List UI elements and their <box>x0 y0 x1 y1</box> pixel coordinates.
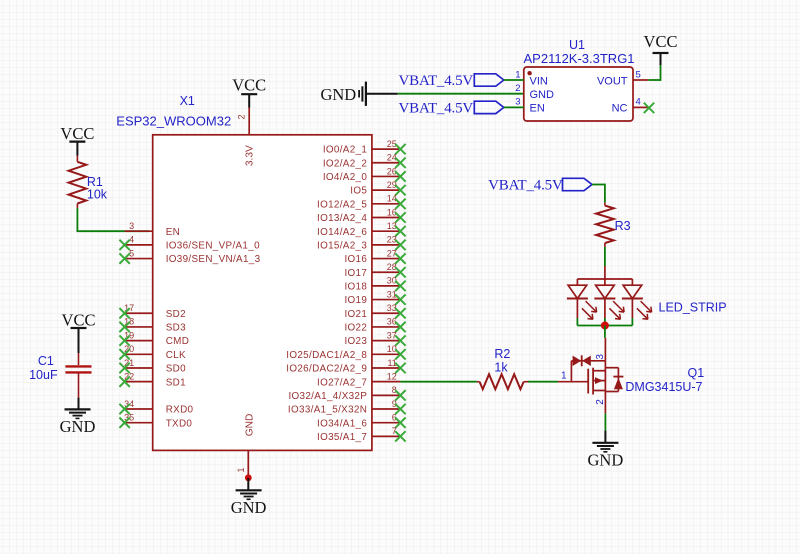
svg-text:DMG3415U-7: DMG3415U-7 <box>625 380 702 394</box>
svg-text:IO15/A2_3: IO15/A2_3 <box>317 240 367 251</box>
pin 25 IO0/A2_1 (right) <box>323 139 406 156</box>
pin 10 IO25/DAC1/A2_8 (right) <box>286 344 405 361</box>
pin 1 GND (bottom) <box>236 414 255 478</box>
svg-text:IO13/A2_4: IO13/A2_4 <box>317 213 367 224</box>
svg-text:R2: R2 <box>494 347 510 361</box>
LED strip top bus <box>577 278 632 280</box>
no-connect X pin 7 <box>395 431 405 441</box>
svg-text:EN: EN <box>530 103 545 115</box>
svg-text:IO0/A2_1: IO0/A2_1 <box>323 145 368 156</box>
resistor R1 <box>69 156 87 209</box>
no-connect X pin 17 <box>119 308 129 318</box>
no-connect X pin 10 <box>395 349 405 359</box>
net flag VBAT_4.5V (EN) <box>399 101 504 117</box>
no-connect X pin 37 <box>395 335 405 345</box>
no-connect X pin 11 <box>395 363 405 373</box>
junction dot (X1 GND) <box>245 474 252 481</box>
svg-text:VOUT: VOUT <box>597 75 628 87</box>
svg-text:VBAT_4.5V: VBAT_4.5V <box>399 101 474 117</box>
no-connect X pin 29 <box>395 185 405 195</box>
svg-text:TXD0: TXD0 <box>166 418 193 429</box>
no-connect X pin 19 <box>119 335 129 345</box>
svg-text:2: 2 <box>237 114 247 119</box>
svg-text:X1: X1 <box>180 94 195 108</box>
svg-text:IO36/SEN_VP/A1_0: IO36/SEN_VP/A1_0 <box>166 240 260 251</box>
wire R2 to Q1 gate <box>528 381 558 383</box>
pin 7 IO35/A1_7 (right) <box>317 426 406 443</box>
svg-text:ESP32_WROOM32: ESP32_WROOM32 <box>116 114 231 129</box>
pin 22 SD1 (left) <box>119 371 186 388</box>
svg-text:VBAT_4.5V: VBAT_4.5V <box>399 73 474 89</box>
pin 31 IO19 (right) <box>344 289 405 306</box>
no-connect X pin 5 <box>119 253 129 263</box>
ground flag (top, to U1 GND) <box>320 82 397 106</box>
LED D2 <box>594 279 624 319</box>
svg-text:R3: R3 <box>615 219 631 233</box>
wire R3 to LED strip <box>604 247 606 266</box>
pin 24 IO2/A2_2 (right) <box>323 153 406 170</box>
ground (X1) <box>231 478 267 517</box>
pin 3 EN (left) <box>125 221 180 238</box>
LED D2 emission arrows <box>613 301 624 312</box>
svg-text:5: 5 <box>636 69 641 80</box>
svg-text:IO16: IO16 <box>344 254 367 265</box>
no-connect X pin 14 <box>395 199 405 209</box>
svg-text:IO32/A1_4/X32P: IO32/A1_4/X32P <box>288 391 367 402</box>
resistor R2 <box>477 374 528 389</box>
svg-text:IO19: IO19 <box>344 295 367 306</box>
pin-1 indicator dot U1 <box>527 71 531 75</box>
power flag VCC (R1 branch) <box>60 124 94 156</box>
svg-text:U1: U1 <box>569 38 585 52</box>
U1 pin 4 NC <box>612 97 655 115</box>
svg-text:IO35/A1_7: IO35/A1_7 <box>317 432 367 443</box>
no-connect X pin 8 <box>395 390 405 400</box>
pin 8 IO32/A1_4/X32P (right) <box>288 385 405 402</box>
LED D3 emission arrows <box>641 301 652 312</box>
ground (C1) <box>60 398 96 436</box>
svg-text:10k: 10k <box>87 188 108 202</box>
LED D1 emission arrows <box>586 301 597 312</box>
no-connect X pin 35 <box>119 418 129 428</box>
svg-text:1: 1 <box>515 69 520 80</box>
svg-text:3.3V: 3.3V <box>244 145 255 166</box>
svg-text:GND: GND <box>320 85 356 104</box>
regulator U1 body <box>524 67 633 121</box>
no-connect X pin 27 <box>395 253 405 263</box>
U1 pin 1 VIN <box>515 69 548 87</box>
no-connect X pin 18 <box>119 322 129 332</box>
ground (Q1) <box>588 431 624 470</box>
svg-text:CLK: CLK <box>166 350 186 361</box>
svg-text:10uF: 10uF <box>29 368 58 382</box>
pin 26 IO4/A2_0 (right) <box>323 166 406 183</box>
pin 34 RXD0 (left) <box>119 399 193 416</box>
pin 16 IO13/A2_4 (right) <box>317 207 406 224</box>
LED strip top lead <box>604 266 606 279</box>
pin 14 IO12/A2_5 (right) <box>317 194 406 211</box>
no-connect X U1 pin 4 <box>644 103 654 113</box>
svg-text:SD2: SD2 <box>166 309 186 320</box>
U1 pin 3 EN <box>515 97 545 115</box>
LED D1 <box>567 279 597 319</box>
no-connect X pin 21 <box>119 363 129 373</box>
svg-text:CMD: CMD <box>166 336 189 347</box>
svg-text:IO21: IO21 <box>344 309 367 320</box>
label R2 1k <box>494 347 510 374</box>
svg-text:SD3: SD3 <box>166 323 186 334</box>
svg-text:C1: C1 <box>38 354 54 368</box>
svg-text:GND: GND <box>231 498 267 517</box>
wire R1 to ESP32 EN pin <box>77 208 150 231</box>
pin 5 IO39/SEN_VN/A1_3 (left) <box>119 248 260 265</box>
svg-text:NC: NC <box>612 103 628 115</box>
svg-text:4: 4 <box>636 97 641 108</box>
LED strip bottom wires <box>577 318 632 326</box>
svg-text:RXD0: RXD0 <box>166 405 194 416</box>
svg-text:GND: GND <box>530 89 555 101</box>
U1 pin 2 GND <box>515 83 554 101</box>
pin 12 IO27/A2_7 (right) <box>317 371 400 388</box>
svg-text:VCC: VCC <box>62 310 96 329</box>
no-connect X pin 24 <box>395 158 405 168</box>
svg-text:1: 1 <box>236 467 246 472</box>
no-connect X pin 20 <box>119 349 129 359</box>
svg-text:Q1: Q1 <box>688 366 705 380</box>
pin 37 IO23 (right) <box>344 330 405 347</box>
pin 19 CMD (left) <box>119 330 189 347</box>
svg-text:IO18: IO18 <box>344 282 367 293</box>
svg-text:IO23: IO23 <box>344 336 367 347</box>
net flag VBAT_4.5V (R3) <box>488 178 592 194</box>
pin 29 IO5 (right) <box>350 180 405 197</box>
power flag VCC (3.3V pin) <box>232 76 266 108</box>
no-connect X pin 28 <box>395 267 405 277</box>
wire VOUT to VCC <box>648 65 660 81</box>
svg-text:IO39/SEN_VN/A1_3: IO39/SEN_VN/A1_3 <box>166 254 261 265</box>
svg-text:IO2/A2_2: IO2/A2_2 <box>323 158 367 169</box>
IC X1 ESP32 body <box>153 135 372 451</box>
svg-text:SD1: SD1 <box>166 377 186 388</box>
wire LED bus to Q1 source <box>604 326 606 338</box>
label R1 10k <box>87 175 108 202</box>
no-connect X pin 31 <box>395 294 405 304</box>
pin 23 IO15/A2_3 (right) <box>317 235 406 252</box>
U1 pin 5 VOUT <box>597 69 648 87</box>
wire VBAT flag to R3 <box>592 184 605 203</box>
svg-text:1k: 1k <box>494 360 508 374</box>
svg-text:VCC: VCC <box>60 124 94 143</box>
wire VBAT flag to EN <box>504 106 524 108</box>
pin 30 IO18 (right) <box>344 276 405 293</box>
svg-text:LED_STRIP: LED_STRIP <box>659 301 727 315</box>
resistor R3 <box>596 202 614 247</box>
svg-text:3: 3 <box>129 221 134 231</box>
no-connect X pin 34 <box>119 404 129 414</box>
pin 13 IO14/A2_6 (right) <box>317 221 406 238</box>
pin 9 IO33/A1_5/X32N (right) <box>288 399 406 416</box>
svg-text:VIN: VIN <box>530 75 548 87</box>
svg-text:12: 12 <box>387 371 397 381</box>
svg-text:IO27/A2_7: IO27/A2_7 <box>317 377 367 388</box>
no-connect X pin 25 <box>395 144 405 154</box>
Q1 pin numbers <box>561 354 606 405</box>
label C1 10uF <box>29 354 58 382</box>
svg-text:3: 3 <box>595 354 606 360</box>
pin 11 IO26/DAC2/A2_9 (right) <box>286 358 405 375</box>
LED D3 <box>622 279 652 319</box>
svg-text:IO12/A2_5: IO12/A2_5 <box>317 199 367 210</box>
pin 36 IO22 (right) <box>344 317 405 334</box>
net flag VBAT_4.5V (VIN) <box>399 73 504 89</box>
no-connect X pin 23 <box>395 240 405 250</box>
wire ESP32 IO27 to R2 <box>400 381 477 383</box>
no-connect X pin 26 <box>395 171 405 181</box>
no-connect X pin 16 <box>395 212 405 222</box>
svg-text:IO26/DAC2/A2_9: IO26/DAC2/A2_9 <box>286 364 367 375</box>
pin 18 SD3 (left) <box>119 317 186 334</box>
no-connect X pin 13 <box>395 226 405 236</box>
junction dot (LED bus) <box>601 322 609 330</box>
wire Q1 drain to GND <box>604 413 606 430</box>
svg-text:IO33/A1_5/X32N: IO33/A1_5/X32N <box>288 405 367 416</box>
svg-text:IO4/A2_0: IO4/A2_0 <box>323 172 368 183</box>
svg-text:VBAT_4.5V: VBAT_4.5V <box>488 178 563 194</box>
pin 28 IO17 (right) <box>344 262 405 279</box>
svg-text:1: 1 <box>561 370 567 381</box>
pin 6 IO34/A1_6 (right) <box>317 413 406 430</box>
pin 27 IO16 (right) <box>344 248 405 265</box>
pin 20 CLK (left) <box>119 344 186 361</box>
svg-text:GND: GND <box>60 417 96 436</box>
no-connect X pin 33 <box>395 308 405 318</box>
pin 17 SD2 (left) <box>119 303 186 320</box>
transistor Q1 DMG3415U-7 <box>558 338 624 414</box>
svg-text:GND: GND <box>588 450 624 469</box>
svg-text:5: 5 <box>129 248 134 258</box>
no-connect X pin 22 <box>119 376 129 386</box>
svg-text:AP2112K-3.3TRG1: AP2112K-3.3TRG1 <box>524 51 635 66</box>
svg-text:GND: GND <box>244 414 255 437</box>
svg-text:4: 4 <box>129 235 134 245</box>
pin 21 SD0 (left) <box>119 358 186 375</box>
svg-text:2: 2 <box>515 83 520 94</box>
no-connect X pin 30 <box>395 281 405 291</box>
svg-text:SD0: SD0 <box>166 364 186 375</box>
svg-text:IO25/DAC1/A2_8: IO25/DAC1/A2_8 <box>286 350 367 361</box>
svg-text:IO17: IO17 <box>344 268 367 279</box>
svg-text:2: 2 <box>595 399 606 405</box>
no-connect X pin 36 <box>395 322 405 332</box>
pin 35 TXD0 (left) <box>119 413 192 430</box>
svg-text:IO14/A2_6: IO14/A2_6 <box>317 227 367 238</box>
svg-text:VCC: VCC <box>232 76 266 95</box>
svg-text:3: 3 <box>515 97 520 108</box>
svg-text:IO5: IO5 <box>350 186 367 197</box>
capacitor C1 <box>65 353 91 398</box>
pin 2 3.3V (top) <box>237 108 256 167</box>
wire GND flag to U1 pin 2 <box>398 93 524 95</box>
svg-text:VCC: VCC <box>644 32 678 51</box>
pin 4 IO36/SEN_VP/A1_0 (left) <box>119 235 260 252</box>
svg-text:IO22: IO22 <box>344 323 367 334</box>
wire VBAT flag to VIN <box>504 79 524 81</box>
power flag VCC (C1 branch) <box>62 310 96 353</box>
svg-text:IO34/A1_6: IO34/A1_6 <box>317 418 367 429</box>
pin 33 IO21 (right) <box>344 303 405 320</box>
power flag VCC (VOUT) <box>644 32 678 65</box>
no-connect X pin 6 <box>395 418 405 428</box>
no-connect X pin 9 <box>395 404 405 414</box>
no-connect X pin 4 <box>119 240 129 250</box>
svg-text:EN: EN <box>166 227 180 238</box>
